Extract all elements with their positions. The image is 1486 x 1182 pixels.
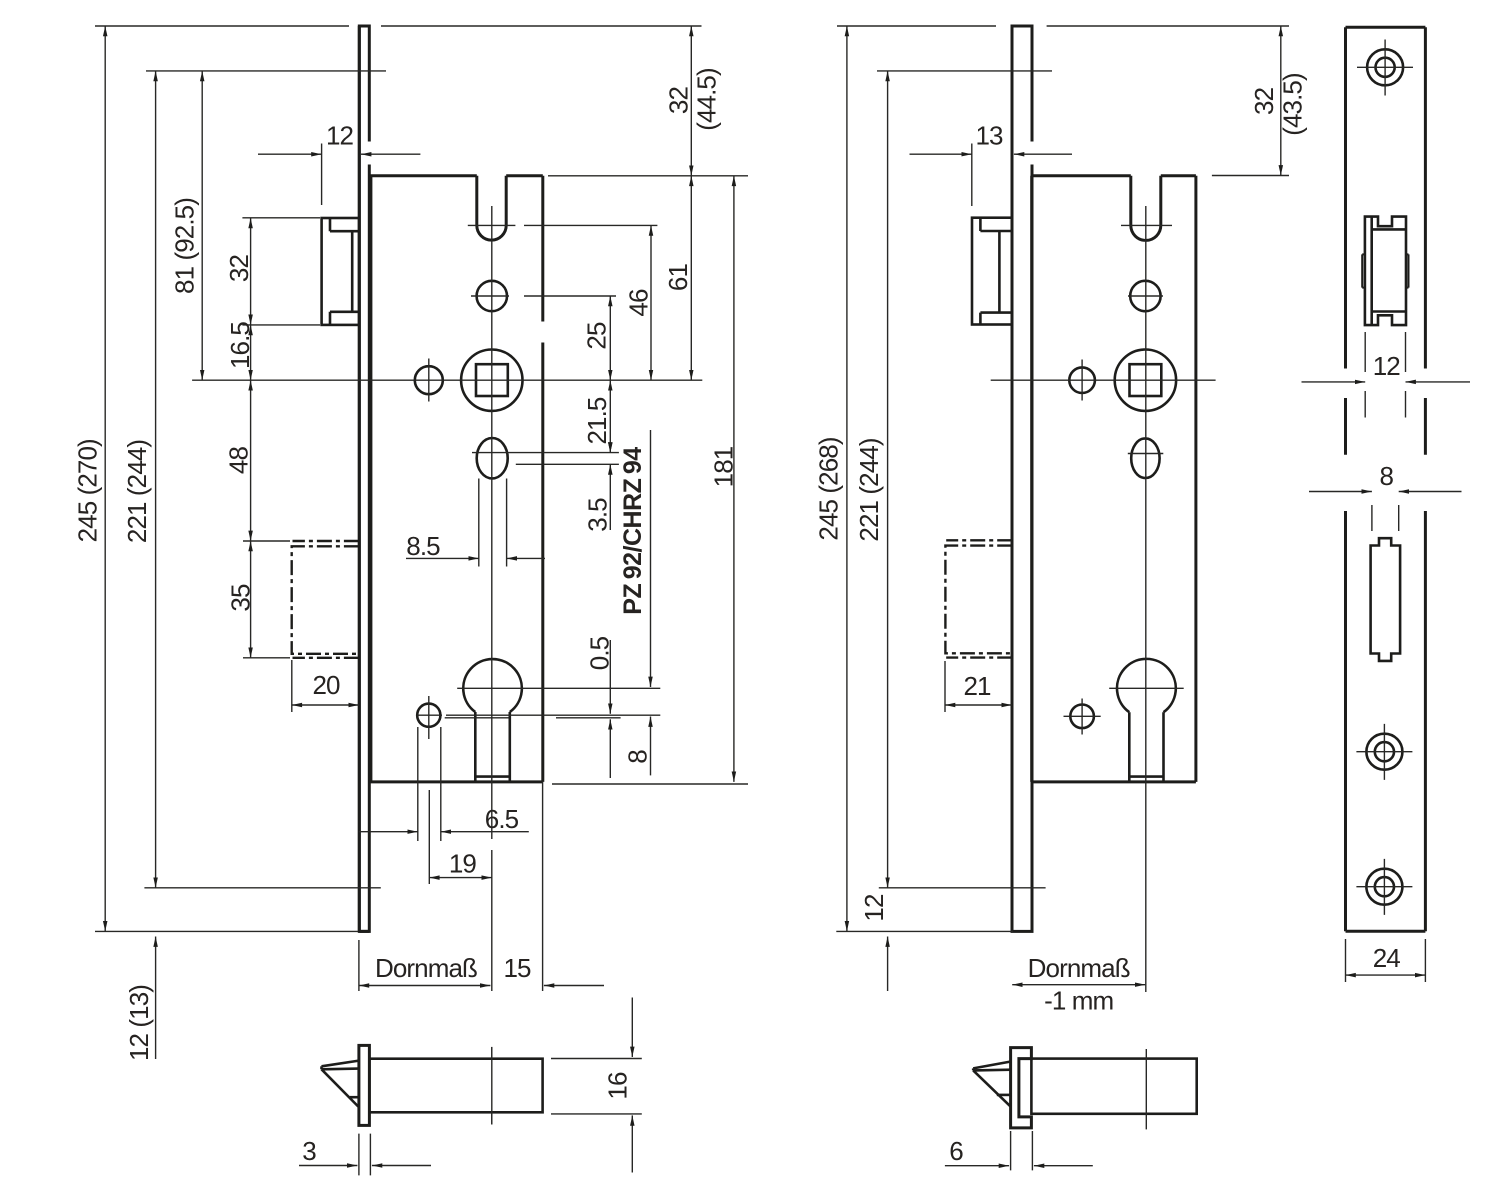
dim Dornmass / 15 (359, 782, 543, 991)
latch head bevel wedge (322, 1061, 359, 1107)
dim 19 (428, 790, 430, 884)
latch opening R (1365, 217, 1406, 326)
case top/bottom ext right (548, 176, 748, 784)
svg-text:35: 35 (226, 584, 256, 612)
svg-text:81 (92.5): 81 (92.5) (170, 198, 200, 294)
lock case body L (369, 176, 543, 782)
dim 61 (690, 176, 692, 380)
svg-text:Dornmaß: Dornmaß (1028, 953, 1130, 983)
svg-text:20: 20 (312, 670, 340, 700)
dim 20 (deadbolt protrusion) (291, 660, 293, 712)
svg-text:(43.5): (43.5) (1278, 73, 1308, 136)
svg-text:245 (270): 245 (270) (72, 439, 102, 542)
svg-text:16: 16 (603, 1072, 633, 1100)
plate outline R (with break gaps) (1346, 27, 1426, 931)
dim 3.5 (outside arrows) (609, 464, 611, 530)
dim 8 (slot width) (1372, 505, 1399, 531)
oval hole L (477, 438, 508, 478)
dim 21.5 (609, 380, 611, 452)
follower circle + square L (461, 350, 522, 411)
svg-text:13: 13 (975, 121, 1003, 151)
hole below notch M (1130, 281, 1160, 311)
svg-text:0.5: 0.5 (585, 636, 615, 670)
dim 8.5 (oval width) (406, 557, 479, 559)
svg-text:181: 181 (709, 446, 739, 487)
svg-text:61: 61 (663, 264, 693, 292)
svg-text:(44.5): (44.5) (692, 68, 722, 131)
faceplate M (front view) (1012, 26, 1032, 931)
latch ext lines (242, 218, 320, 325)
bottom screw hole R (1366, 869, 1402, 905)
top screw hole R (1367, 49, 1403, 85)
vertical centerline M (1145, 206, 1147, 992)
svg-text:48: 48 (224, 447, 254, 475)
svg-text:12: 12 (326, 121, 354, 151)
dim 12 (latch protrusion) (321, 144, 323, 206)
cylinder hole PZ L (463, 659, 522, 712)
svg-text:PZ 92/CHRZ 94: PZ 92/CHRZ 94 (619, 447, 647, 615)
dim 245 (268) (846, 26, 848, 931)
svg-text:3: 3 (302, 1136, 316, 1166)
svg-text:12: 12 (859, 894, 889, 922)
deadbolt (phantom dashed) L (293, 540, 359, 542)
latch head bevel wedge M (973, 1061, 1011, 1106)
ext 221 bottom M (879, 887, 1046, 889)
dim 81 (92.5) (201, 71, 203, 380)
dim 221 (244) M (887, 71, 889, 888)
svg-text:12: 12 (1373, 351, 1401, 381)
dim 16.5 (250, 325, 252, 380)
svg-text:32: 32 (224, 255, 254, 283)
svg-text:-1 mm: -1 mm (1044, 985, 1113, 1015)
dim 245 (270) (104, 26, 106, 931)
dim 46 (650, 225, 652, 380)
horizontal centerline L (192, 379, 702, 381)
dim 48 (250, 380, 252, 541)
dim 12 (opening width) (1365, 332, 1405, 418)
svg-text:24: 24 (1373, 943, 1401, 973)
ext line top (245) (95, 25, 702, 27)
crosshair lines M (1121, 224, 1172, 226)
dim 3 (plate thickness) (359, 1134, 371, 1176)
svg-text:8: 8 (623, 750, 653, 764)
svg-text:21: 21 (963, 671, 991, 701)
svg-text:245 (268): 245 (268) (814, 437, 844, 540)
ext bottom M (836, 930, 1013, 932)
svg-text:6: 6 (949, 1136, 963, 1166)
faceplate side strip (359, 1045, 370, 1125)
side view centerline M (1145, 1049, 1147, 1129)
faceplate C-channel side M (1011, 1048, 1032, 1128)
lower fixing hole M (1070, 705, 1094, 729)
dim 21 (deadbolt protrusion M) (944, 661, 946, 712)
svg-text:3.5: 3.5 (583, 498, 613, 532)
dim 6.5 (418, 727, 441, 841)
cylinder hole PZ M (1117, 659, 1176, 712)
svg-text:32: 32 (1249, 87, 1279, 115)
svg-text:32: 32 (664, 87, 694, 115)
dim 221 (244) (155, 71, 157, 888)
svg-text:221 (244): 221 (244) (122, 440, 152, 543)
ext line bottom (245) (95, 930, 358, 932)
svg-text:12 (13): 12 (13) (124, 985, 154, 1061)
deadbolt slot R (1371, 538, 1401, 661)
dim 32 (43.5) (1212, 175, 1289, 177)
svg-text:19: 19 (449, 848, 477, 878)
side view centerline (491, 1047, 493, 1125)
lower fixing hole L (417, 704, 440, 727)
dim 24 (plate width) (1346, 939, 1426, 982)
svg-text:8.5: 8.5 (406, 531, 440, 561)
dim 13 (latch protrusion M) (971, 144, 973, 207)
dim 6 (channel depth) (1011, 1131, 1033, 1170)
svg-text:15: 15 (503, 953, 531, 983)
dim 16 (551, 1059, 642, 1114)
svg-text:25: 25 (582, 322, 612, 350)
horizontal centerline M (991, 379, 1216, 381)
latch body side M (1031, 1059, 1196, 1114)
vertical centerline L (491, 206, 493, 1125)
svg-text:21.5: 21.5 (582, 397, 612, 444)
svg-text:46: 46 (624, 289, 654, 317)
hole crosshair lines L (471, 295, 616, 297)
deadbolt ext lines (243, 541, 290, 658)
follower circle + square M (1115, 350, 1176, 411)
dim 35 (250, 541, 252, 658)
ext line 221 bottom (144, 887, 380, 889)
ext line top M (837, 25, 1289, 27)
oval hole M (1131, 438, 1159, 478)
latch bolt M (front view) (972, 218, 1012, 325)
lock case body M (1032, 176, 1196, 782)
hole below notch L (477, 281, 507, 311)
dim 181 (733, 176, 735, 782)
svg-text:16.5: 16.5 (225, 322, 255, 369)
dim Dornmass -1 mm (1012, 984, 1145, 986)
faceplate L (front view) (359, 26, 369, 931)
small hole left of follower M (1069, 367, 1095, 393)
dim 25 (609, 296, 611, 380)
small hole left of follower L (415, 366, 443, 394)
ext line 221 top (146, 70, 386, 72)
dim 8 (cyl offset) (650, 430, 652, 687)
middle screw hole R (1366, 734, 1402, 770)
svg-text:221 (244): 221 (244) (854, 438, 884, 541)
dim 12 (bottom M) (887, 937, 889, 992)
ext 221 top M (877, 70, 1052, 72)
dim 32 (latch) (250, 218, 252, 325)
svg-text:Dornmaß: Dornmaß (375, 953, 477, 983)
latch bolt L (front view) (322, 218, 360, 325)
dim 32 (44.5) (690, 26, 692, 176)
deadbolt (phantom dashed) M (946, 539, 1012, 541)
latch body side (369, 1059, 542, 1113)
dim 0.5 (609, 640, 611, 714)
svg-text:8: 8 (1380, 461, 1394, 491)
dim 12 (13) (155, 937, 157, 1060)
svg-text:6.5: 6.5 (485, 804, 519, 834)
